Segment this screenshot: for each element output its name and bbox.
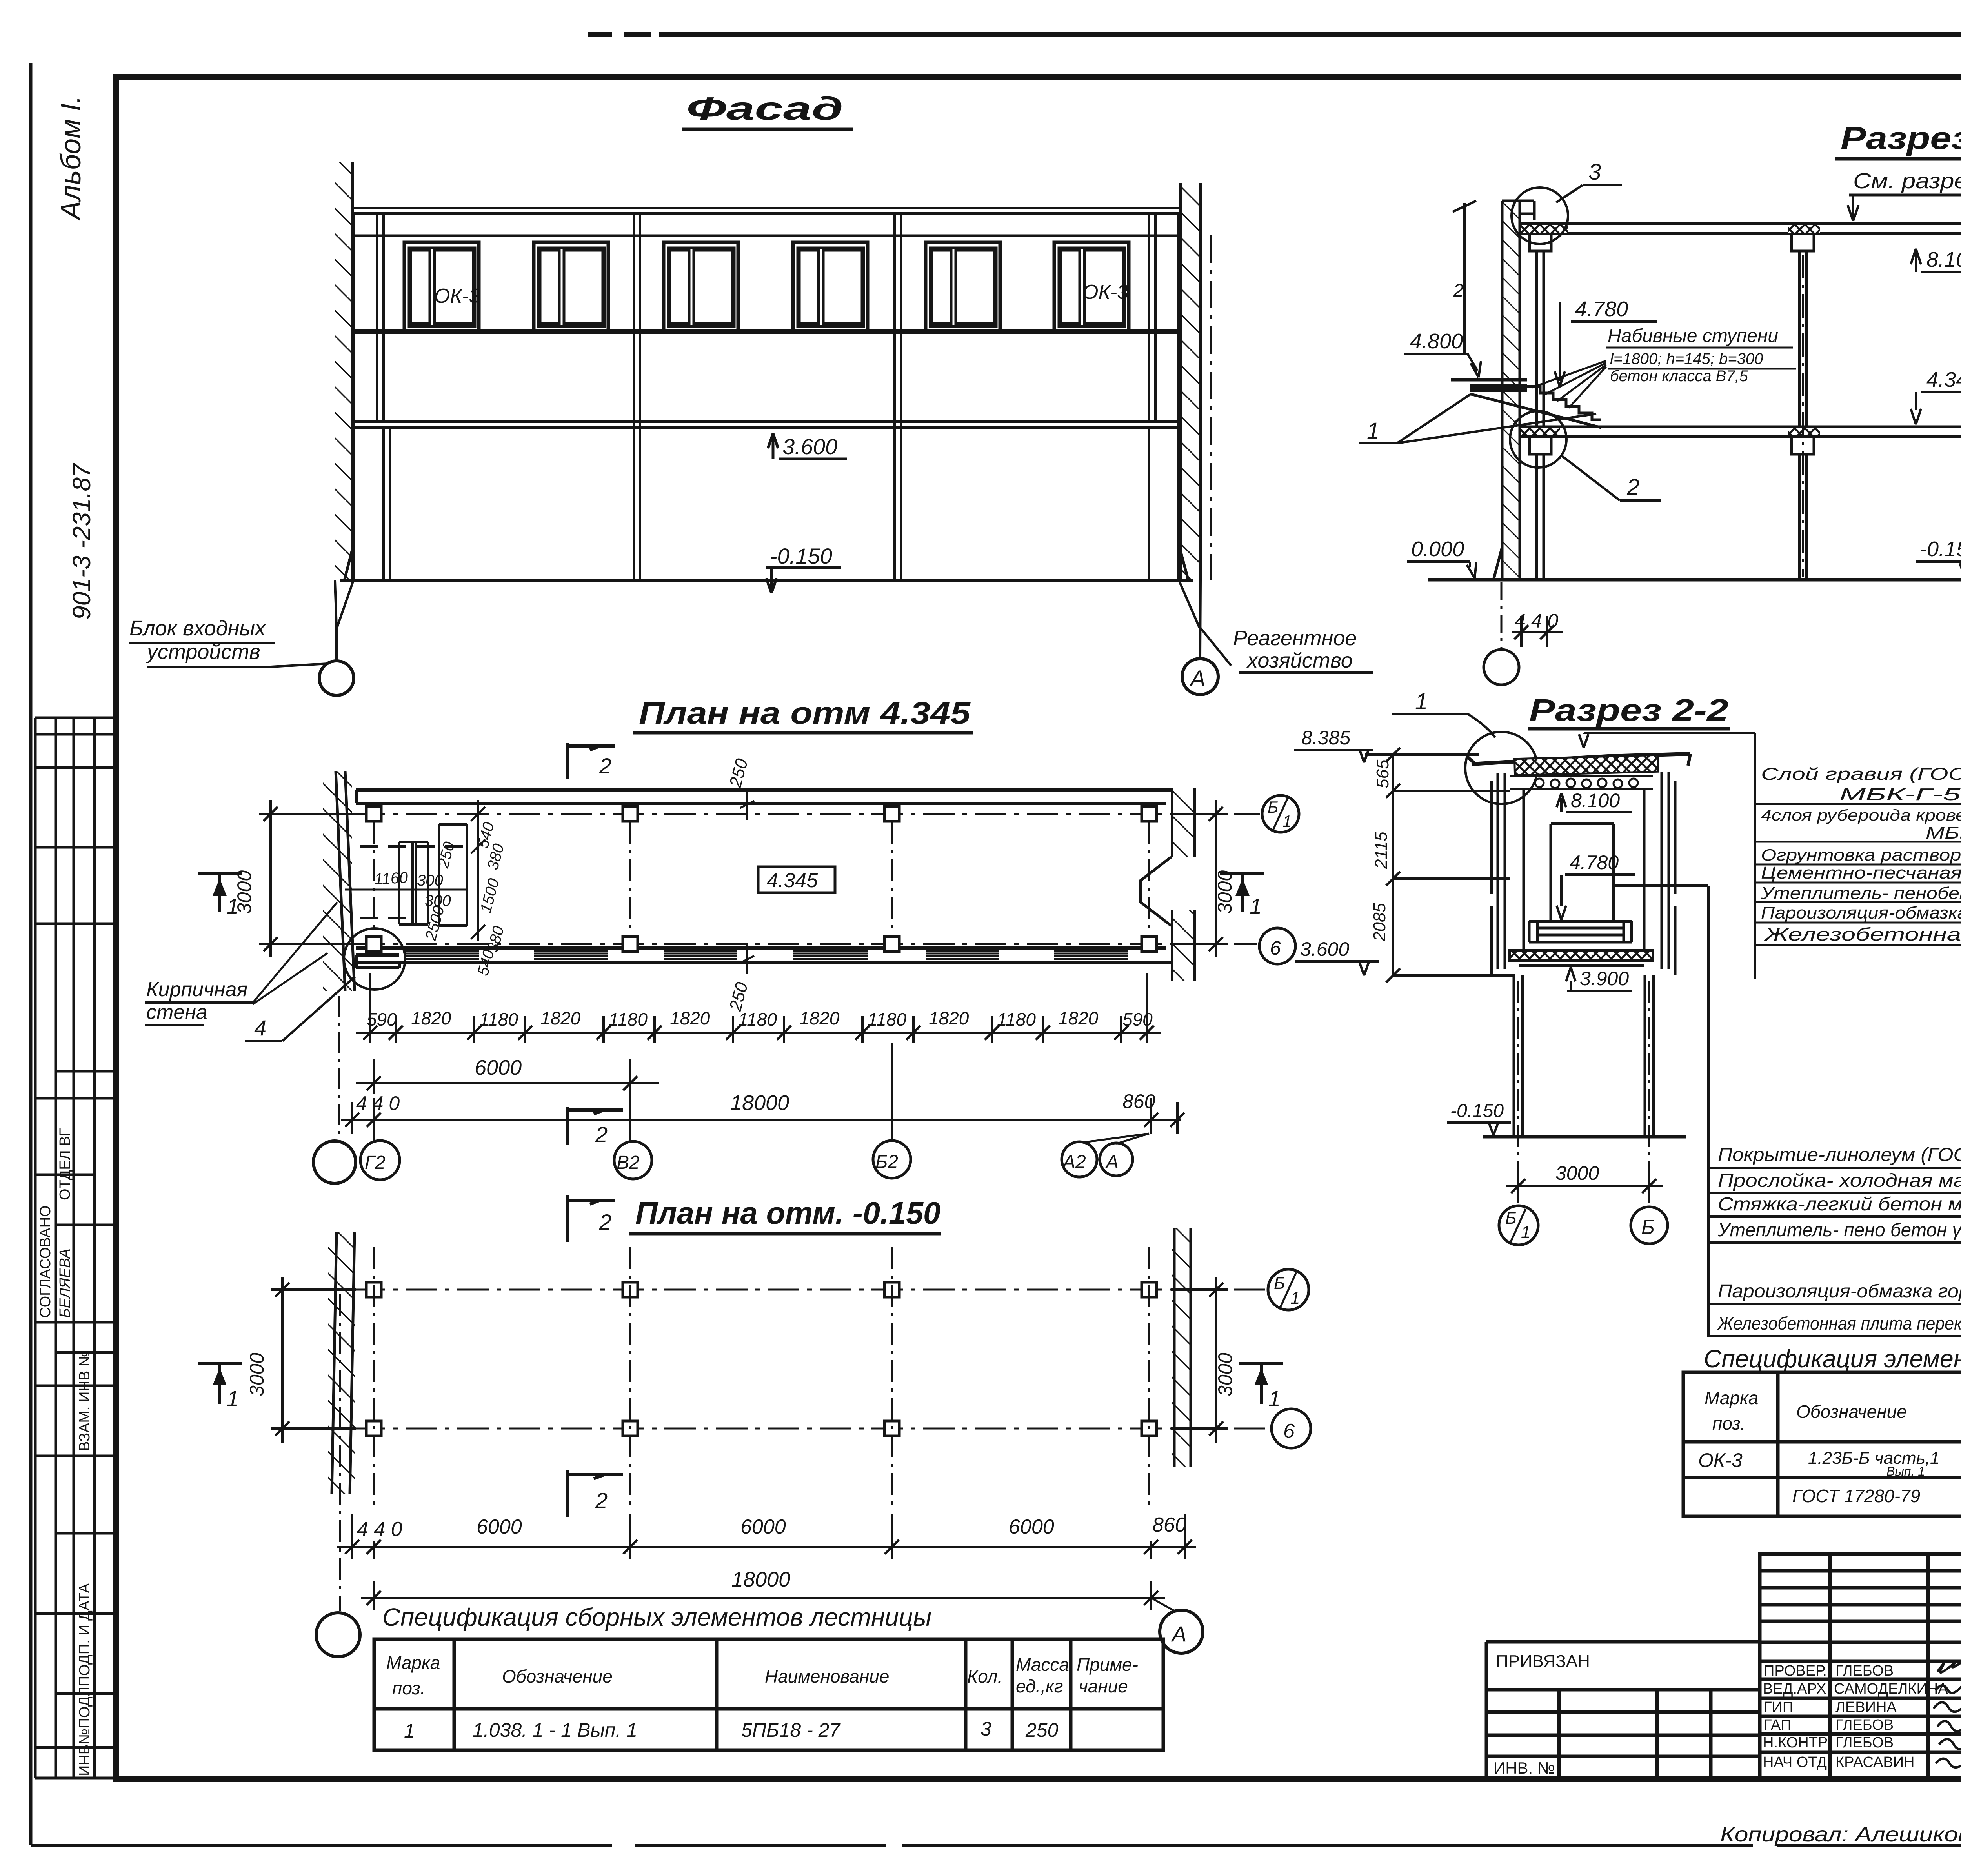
svg-text:НАЧ ОТД: НАЧ ОТД [1763, 1754, 1827, 1770]
svg-text:ОТДЕЛ ВГ: ОТДЕЛ ВГ [57, 1128, 73, 1200]
svg-text:4.780: 4.780 [1570, 852, 1619, 873]
svg-text:6000: 6000 [477, 1516, 522, 1538]
circle Б/1 right [1262, 795, 1299, 832]
detail circle bottom [1510, 411, 1566, 468]
svg-text:ИНВ. №: ИНВ. № [1493, 1759, 1555, 1777]
svg-text:Цементно-песчаная стяжка М50-: Цементно-песчаная стяжка М50- 15мм [1761, 863, 1961, 883]
window strips in plan [404, 951, 1128, 959]
tower axis circle Б [1631, 1207, 1668, 1244]
svg-text:Приме-: Приме- [1077, 1654, 1138, 1675]
svg-text:Пароизоляция-обмазка горячим б: Пароизоляция-обмазка горячим битумом за … [1761, 903, 1961, 923]
svg-text:Копировал: Алешикова: Копировал: Алешикова [1720, 1823, 1961, 1846]
facade building outline [340, 208, 1193, 580]
roof slab [1520, 224, 1961, 233]
svg-text:2085: 2085 [1370, 903, 1389, 942]
plan walls bottom band [356, 948, 1171, 968]
svg-text:Обозначение: Обозначение [1796, 1401, 1907, 1422]
left dim 3000 [259, 800, 356, 957]
column axes dash-dot [1803, 255, 1961, 577]
svg-text:ГАП: ГАП [1764, 1717, 1791, 1733]
tower walls [1492, 772, 1675, 975]
floor slab [1520, 427, 1961, 437]
svg-text:4.345: 4.345 [767, 869, 818, 892]
svg-text:Б: Б [1274, 1274, 1285, 1293]
svg-text:1160: 1160 [374, 869, 408, 888]
svg-text:6: 6 [1270, 937, 1281, 959]
right brick wall hatched lower [1172, 910, 1195, 981]
svg-text:18000: 18000 [730, 1091, 789, 1115]
subtitle arrow to roof [1848, 196, 1859, 221]
svg-text:3000: 3000 [1214, 1353, 1236, 1396]
svg-text:3.600: 3.600 [782, 434, 837, 459]
svg-text:Б: Б [1641, 1216, 1655, 1239]
svg-text:2: 2 [595, 1488, 608, 1513]
window #3 [664, 242, 738, 331]
svg-text:2115: 2115 [1372, 832, 1391, 869]
svg-text:чание: чание [1079, 1676, 1128, 1696]
svg-text:Обозначение: Обозначение [502, 1666, 613, 1687]
section mark 1 left [198, 874, 242, 912]
svg-text:Спецификация элементов заполне: Спецификация элементов заполнения проемо… [1704, 1345, 1961, 1373]
svg-text:0.000: 0.000 [1411, 537, 1464, 561]
right end bay polygon [1141, 857, 1171, 926]
brick wall left hatched [323, 771, 352, 991]
data row [404, 1718, 1059, 1742]
svg-text:1: 1 [1415, 689, 1428, 714]
tower ground line [1483, 1135, 1686, 1139]
inner shaft [1551, 824, 1614, 922]
column axes vertical dash [374, 822, 1149, 937]
column 1 [1537, 251, 1544, 580]
svg-text:Пароизоляция-обмазка горячим б: Пароизоляция-обмазка горячим битумом за … [1718, 1281, 1961, 1302]
svg-text:1: 1 [1367, 418, 1379, 444]
svg-text:МБК-Г-55г (МБК-Г-65г) ГОСТ 288: МБК-Г-55г (МБК-Г-65г) ГОСТ 2889-80- 10 м… [1839, 785, 1961, 804]
window #4 [793, 242, 868, 331]
privyazan table [1486, 1642, 1760, 1778]
svg-text:3000: 3000 [1555, 1162, 1599, 1184]
svg-text:ПОДП. И ДАТА: ПОДП. И ДАТА [76, 1583, 93, 1687]
svg-text:Набивные ступени: Набивные ступени [1608, 326, 1778, 346]
column axes vertical dash lower [374, 1247, 1149, 1511]
svg-text:поз.: поз. [1712, 1413, 1746, 1434]
left sheet edge [29, 63, 33, 1845]
left brick pier hatched [335, 162, 352, 580]
svg-text:6000: 6000 [1009, 1516, 1054, 1538]
elevation mark 3.600 [768, 433, 847, 459]
tower floor slab [1510, 950, 1653, 961]
svg-text:3000: 3000 [1214, 870, 1236, 914]
svg-text:Наименование: Наименование [765, 1666, 889, 1687]
svg-text:901-3 -231.87: 901-3 -231.87 [67, 462, 96, 620]
window ОК-3 #1 [404, 242, 479, 331]
right dim 3000 lower [1171, 1277, 1228, 1443]
section mark 2 bottom lower [568, 1470, 623, 1517]
signature rows [1760, 1661, 1961, 1752]
svg-text:3: 3 [1588, 159, 1601, 185]
svg-text:Блок входных: Блок входных [129, 617, 266, 640]
tower legs [1514, 975, 1654, 1137]
right brick wall hatched upper [1172, 788, 1195, 857]
svg-text:Г2: Г2 [365, 1152, 386, 1173]
svg-text:1: 1 [1250, 894, 1262, 919]
svg-text:Реагентное: Реагентное [1233, 626, 1357, 650]
header texts [386, 1652, 1138, 1698]
elevation box 4.345 [758, 867, 835, 893]
svg-text:-0.150: -0.150 [1450, 1101, 1504, 1121]
svg-text:ПРОВЕР.: ПРОВЕР. [1764, 1663, 1827, 1679]
detail circle top [1512, 187, 1568, 244]
svg-text:300: 300 [417, 872, 443, 889]
floor layers notes block [1708, 1145, 1961, 1336]
svg-text:Кирпичная: Кирпичная [146, 978, 247, 1001]
svg-text:4 4 0: 4 4 0 [357, 1518, 402, 1541]
svg-text:4.780: 4.780 [1575, 297, 1628, 321]
grid axis Б [302, 943, 1257, 945]
svg-text:Железобетонная плита перекрыти: Железобетонная плита перекрытия [1717, 1313, 1961, 1334]
circle Б2 [873, 1141, 911, 1178]
window #2 [534, 242, 608, 331]
first floor slab band [353, 420, 1179, 423]
svg-text:поз.: поз. [392, 1678, 426, 1698]
svg-text:8.385: 8.385 [1301, 727, 1350, 749]
svg-text:-0.150: -0.150 [1920, 537, 1961, 561]
svg-text:1: 1 [227, 1386, 239, 1411]
svg-text:План на отм 4.345: План на отм 4.345 [639, 695, 971, 730]
svg-text:8.100: 8.100 [1926, 248, 1961, 271]
plan walls top band [356, 790, 1171, 803]
title underline [682, 128, 853, 131]
wall base flares [344, 545, 1188, 580]
svg-text:1180: 1180 [868, 1009, 906, 1030]
svg-text:1: 1 [1290, 1288, 1300, 1308]
svg-text:Утеплитель- пенобетон γ=300кг/: Утеплитель- пенобетон γ=300кг/м3 - 140 м… [1761, 884, 1961, 903]
svg-text:КРАСАВИН: КРАСАВИН [1835, 1754, 1915, 1770]
left attachment strip [35, 718, 116, 1778]
gravel dots row [1535, 779, 1638, 788]
section left axis circle [1484, 650, 1519, 685]
svg-text:Марка: Марка [386, 1652, 440, 1673]
parapet top double line [352, 207, 1180, 209]
svg-text:План на отм. -0.150: План на отм. -0.150 [635, 1195, 940, 1230]
tower axis circle 5/1 [1499, 1206, 1538, 1245]
svg-text:ГЛЕБОВ: ГЛЕБОВ [1835, 1734, 1894, 1751]
facade panel joints [377, 214, 1155, 580]
svg-text:стена: стена [146, 1001, 207, 1024]
svg-text:3.900: 3.900 [1580, 968, 1629, 990]
svg-text:Кол.: Кол. [967, 1666, 1002, 1687]
svg-text:ОК-3: ОК-3 [434, 285, 480, 308]
svg-text:4: 4 [254, 1015, 266, 1040]
svg-text:бетон класса В7,5: бетон класса В7,5 [1610, 368, 1748, 385]
left margin vertical texts [55, 96, 96, 620]
section mark 2 bottom [568, 1107, 623, 1145]
svg-text:Прослойка- холодная мастика: Прослойка- холодная мастика на водостойк… [1718, 1170, 1961, 1191]
upper small rows columns [1830, 1554, 1961, 1780]
svg-text:хозяйство: хозяйство [1246, 649, 1353, 672]
svg-text:Разрез 1-1: Разрез 1-1 [1841, 120, 1961, 156]
signature labels [1763, 1663, 1948, 1770]
svg-text:ЛЕВИНА: ЛЕВИНА [1835, 1699, 1897, 1716]
left dim chain [1365, 748, 1515, 983]
svg-text:1180: 1180 [479, 1009, 518, 1030]
column row (section) [1530, 233, 1961, 580]
right brick pier hatched [1181, 183, 1201, 580]
grid axis Б/1 lower [302, 1289, 1266, 1291]
table grid [374, 1639, 1163, 1750]
wall base flares [1493, 547, 1961, 580]
svg-text:565: 565 [1373, 759, 1392, 788]
svg-text:-0.150: -0.150 [770, 544, 832, 568]
section mark 2 top [568, 743, 615, 779]
svg-text:4 4 0: 4 4 0 [1515, 610, 1558, 632]
svg-text:4 4 0: 4 4 0 [356, 1092, 400, 1114]
elevation mark -0.150 [766, 568, 841, 593]
svg-text:1: 1 [227, 894, 239, 919]
svg-text:1820: 1820 [411, 1008, 451, 1028]
svg-text:1180: 1180 [738, 1009, 777, 1030]
leader to right grid circle А [1179, 580, 1231, 666]
svg-text:А: А [1105, 1152, 1119, 1172]
svg-text:Покрытие-линолеум (ГОСТ 7251: Покрытие-линолеум (ГОСТ 7251-77) - 4 мм. [1718, 1145, 1961, 1165]
svg-text:Огрунтовка раствором битума пя: Огрунтовка раствором битума пятой марки … [1761, 846, 1961, 864]
window sill line [353, 329, 1179, 331]
svg-text:ВЗАМ. ИНВ №: ВЗАМ. ИНВ № [76, 1350, 93, 1451]
elevation 3.600 (left) [1295, 961, 1379, 975]
svg-text:Спецификация сборных элементов: Спецификация сборных элементов лестницы [382, 1603, 931, 1631]
left grid circle (blank) [319, 661, 354, 695]
staircase opening dashed [360, 846, 467, 918]
circle А2 [1062, 1142, 1097, 1177]
svg-text:2: 2 [595, 1122, 608, 1147]
right dim 3000 [1171, 800, 1228, 957]
svg-text:Б: Б [1268, 798, 1278, 816]
dim 440 (section) [1501, 582, 1503, 648]
right grid circle А [1182, 659, 1218, 695]
svg-text:Слой гравия (ГОСТ8268-82,F≥100: Слой гравия (ГОСТ8268-82,F≥100) на битум… [1761, 764, 1961, 784]
svg-text:3.600: 3.600 [1300, 938, 1349, 960]
column squares top axis [366, 806, 1157, 952]
svg-text:ОК-3: ОК-3 [1082, 281, 1128, 304]
svg-text:САМОДЕЛКИНА: САМОДЕЛКИНА [1834, 1681, 1948, 1697]
svg-text:ПРИВЯЗАН: ПРИВЯЗАН [1496, 1652, 1590, 1671]
svg-text:1: 1 [404, 1720, 415, 1742]
svg-text:1: 1 [1521, 1223, 1530, 1242]
svg-text:Б2: Б2 [875, 1152, 898, 1172]
svg-text:6000: 6000 [740, 1516, 786, 1538]
svg-text:1820: 1820 [929, 1008, 969, 1028]
leader to roof notes [1579, 733, 1755, 979]
section mark 2 top [568, 1195, 615, 1242]
landing plates [1529, 921, 1632, 942]
section left wall hatched [1502, 201, 1520, 580]
column squares [366, 1282, 1157, 1436]
circle left blank (bottom) [316, 1613, 360, 1657]
signatures squiggles [1934, 1657, 1961, 1767]
svg-text:ГЛЕБОВ: ГЛЕБОВ [1835, 1717, 1894, 1733]
svg-text:1820: 1820 [799, 1008, 840, 1028]
svg-text:l=1800; h=145; b=300: l=1800; h=145; b=300 [1610, 350, 1763, 368]
svg-text:Железобетонная плита покрыт: Железобетонная плита покрытия [1764, 924, 1961, 944]
svg-text:3: 3 [980, 1718, 991, 1740]
svg-text:1820: 1820 [540, 1008, 581, 1028]
svg-text:4слоя рубероида кровельногоРКП: 4слоя рубероида кровельногоРКП350(ГОСТ10… [1761, 807, 1961, 824]
svg-text:860: 860 [1152, 1514, 1186, 1536]
svg-text:Утеплитель- пено бетон γ=300 к: Утеплитель- пено бетон γ=300 кг/м3 - 160… [1717, 1220, 1961, 1241]
parapet band bottom / window head line [353, 235, 1179, 237]
circle В2 [614, 1141, 652, 1179]
svg-text:590: 590 [1122, 1009, 1153, 1030]
svg-text:ОК-3: ОК-3 [1698, 1449, 1743, 1471]
svg-text:СОГЛАСОВАНО: СОГЛАСОВАНО [37, 1205, 54, 1318]
stair landing [1451, 378, 1527, 382]
svg-text:Н.КОНТР: Н.КОНТР [1763, 1734, 1828, 1751]
svg-text:Б: Б [1505, 1208, 1517, 1228]
left vertical dim line [1453, 201, 1476, 353]
window #5 [926, 242, 1000, 331]
svg-text:Альбом I.: Альбом I. [55, 96, 87, 221]
svg-text:ИНВ№ПОДЛ: ИНВ№ПОДЛ [76, 1687, 93, 1776]
svg-text:4.800: 4.800 [1410, 329, 1463, 353]
detail circle plan corner [344, 928, 405, 990]
svg-text:Фасад: Фасад [686, 91, 843, 127]
svg-text:А: А [1189, 666, 1206, 691]
svg-text:1180: 1180 [609, 1009, 648, 1030]
brick wall right hatched [1172, 1228, 1191, 1467]
left wall axis dash to circle [339, 1294, 341, 1611]
svg-text:В2: В2 [617, 1152, 640, 1173]
ground line [1428, 578, 1961, 582]
dims 440/6000/6000/6000/860 [357, 1514, 1186, 1541]
leader to floor notes [1614, 886, 1708, 1337]
circle Б right with 3.600 [1259, 928, 1295, 964]
main outline [1760, 1554, 1961, 1780]
brick wall left hatched [328, 1232, 355, 1494]
circle А [1100, 1143, 1133, 1176]
svg-text:А2: А2 [1062, 1152, 1086, 1172]
svg-text:1820: 1820 [1058, 1008, 1099, 1028]
svg-text:ед.,кг: ед.,кг [1016, 1676, 1063, 1696]
grid axis Б lower [302, 1428, 1271, 1430]
detail circle roof [1465, 732, 1537, 804]
svg-text:3000: 3000 [246, 1353, 268, 1396]
svg-text:590: 590 [367, 1009, 397, 1030]
grid axis Б/1 [302, 813, 1260, 815]
svg-text:6000: 6000 [475, 1056, 522, 1079]
tower roof slab [1472, 754, 1690, 764]
svg-text:Марка: Марка [1705, 1388, 1758, 1408]
svg-text:1: 1 [1268, 1386, 1281, 1411]
right axis dash-dot [1210, 235, 1212, 580]
stair steps [1527, 386, 1601, 420]
svg-text:ВЕД.АРХ: ВЕД.АРХ [1763, 1681, 1826, 1697]
roof slab hatched bearing zones [1521, 225, 1568, 233]
svg-text:4.345: 4.345 [1926, 368, 1961, 391]
circle А (bottom) [1160, 1610, 1203, 1653]
stair flight rails [399, 824, 467, 926]
svg-text:2: 2 [1626, 475, 1639, 500]
svg-text:ГИП: ГИП [1764, 1699, 1793, 1716]
svg-text:18000: 18000 [731, 1568, 790, 1591]
roof layers notes block [1756, 764, 1961, 945]
svg-text:1: 1 [1282, 812, 1292, 830]
svg-text:ГОСТ 17280-79: ГОСТ 17280-79 [1792, 1486, 1920, 1506]
svg-text:250: 250 [1025, 1719, 1059, 1741]
svg-text:8.100: 8.100 [1571, 790, 1620, 812]
svg-text:1180: 1180 [997, 1009, 1036, 1030]
circle Г2 [360, 1141, 400, 1180]
left wall axis circle (blank) [313, 1141, 356, 1183]
dim chain row (windows) [356, 973, 1161, 1043]
svg-text:ГЛЕБОВ: ГЛЕБОВ [1835, 1663, 1894, 1679]
svg-text:1820: 1820 [670, 1008, 710, 1028]
small stair dims [374, 820, 508, 977]
svg-text:Стяжка-легкий бетон марки 50: Стяжка-легкий бетон марки 50 - 60 мм [1718, 1194, 1961, 1215]
circle Б/1 lower [1268, 1269, 1309, 1310]
svg-text:БЕЛЯЕВА: БЕЛЯЕВА [57, 1248, 73, 1318]
section mark 1 right [1220, 874, 1264, 912]
svg-text:Вып. 1: Вып. 1 [1886, 1464, 1925, 1478]
svg-text:1.038. 1 - 1 Вып. 1: 1.038. 1 - 1 Вып. 1 [473, 1719, 637, 1741]
svg-text:2: 2 [599, 753, 611, 778]
svg-text:А: А [1171, 1621, 1186, 1646]
svg-text:Разрез 2-2: Разрез 2-2 [1529, 693, 1728, 728]
svg-text:2: 2 [599, 1210, 611, 1234]
witness lines to circles [374, 1043, 1149, 1144]
svg-text:МБК-Г-65А (МБК-Г-65А): МБК-Г-65А (МБК-Г-65А) [1926, 823, 1961, 842]
section mark 1 right lower [1239, 1363, 1283, 1404]
ground line [340, 579, 1193, 582]
svg-text:6: 6 [1283, 1420, 1295, 1443]
svg-text:2: 2 [1453, 280, 1464, 300]
left dim 3000 lower [271, 1277, 356, 1443]
svg-text:5ПБ18 - 27: 5ПБ18 - 27 [741, 1719, 841, 1741]
upper small rows [1760, 1571, 1961, 1642]
svg-text:См. разрез 2-2: См. разрез 2-2 [1853, 168, 1961, 193]
svg-text:Масса: Масса [1016, 1654, 1069, 1675]
top outer border line [588, 32, 1961, 37]
section mark 1 left lower [198, 1363, 242, 1404]
window ОК-3 #6 [1054, 242, 1129, 331]
circle Б lower [1272, 1409, 1311, 1448]
column 2 [1799, 251, 1806, 580]
leader to left grid circle [335, 580, 353, 661]
bottom sheet edge [31, 1844, 1961, 1847]
